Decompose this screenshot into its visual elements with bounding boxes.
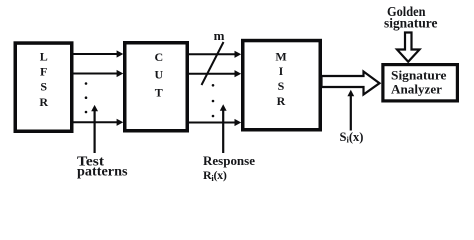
label Response Ri(x) xyxy=(203,153,255,183)
block MISR xyxy=(243,41,321,130)
wire LFSR to CUT line 1 xyxy=(73,50,123,57)
label Test patterns xyxy=(77,154,128,179)
svg-text:U: U xyxy=(154,68,163,82)
wire LFSR to CUT line 2 xyxy=(73,70,123,77)
bus slash xyxy=(202,42,224,85)
svg-text:Si(x): Si(x) xyxy=(340,130,364,145)
svg-text:R: R xyxy=(277,94,286,108)
svg-text:C: C xyxy=(154,50,163,64)
wire LFSR to CUT bottom xyxy=(73,119,123,126)
svg-text:L: L xyxy=(40,50,48,64)
svg-text:patterns: patterns xyxy=(77,165,128,180)
svg-text:S: S xyxy=(40,80,47,94)
block LFSR xyxy=(15,43,72,131)
dots between LFSR and CUT xyxy=(85,82,88,113)
svg-text:I: I xyxy=(279,64,284,78)
svg-text:Signature: Signature xyxy=(391,67,447,82)
block Signature Analyzer xyxy=(383,65,458,101)
svg-text:Response: Response xyxy=(203,153,255,168)
arrow Si(x) xyxy=(347,90,354,131)
svg-text:T: T xyxy=(155,85,163,99)
hollow arrow MISR to Signature Analyzer xyxy=(322,72,380,95)
svg-text:Ri(x): Ri(x) xyxy=(203,168,227,183)
wire CUT to MISR bottom xyxy=(189,119,241,126)
svg-text:signature: signature xyxy=(384,16,438,31)
svg-text:F: F xyxy=(40,65,47,79)
block CUT xyxy=(125,43,188,131)
svg-text:S: S xyxy=(278,79,285,93)
svg-text:m: m xyxy=(214,28,225,43)
label Golden signature xyxy=(384,4,438,31)
wire CUT to MISR line 1 xyxy=(189,51,241,58)
arrow Response xyxy=(220,104,227,153)
svg-text:Analyzer: Analyzer xyxy=(391,82,442,97)
dots between CUT and MISR xyxy=(212,84,215,117)
svg-text:R: R xyxy=(39,95,48,109)
arrow Test patterns xyxy=(91,105,98,153)
hollow arrow Golden signature xyxy=(397,33,420,62)
svg-text:M: M xyxy=(275,50,286,64)
wire CUT to MISR line 2 xyxy=(189,70,241,77)
